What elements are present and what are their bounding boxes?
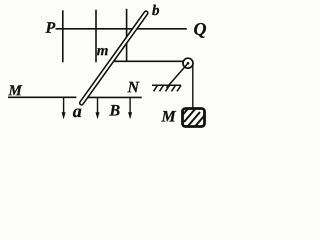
svg-text:a: a	[73, 101, 82, 121]
svg-text:m: m	[97, 43, 109, 59]
svg-text:Q: Q	[194, 19, 207, 39]
svg-text:M: M	[160, 109, 176, 126]
svg-text:M: M	[7, 83, 22, 99]
svg-text:P: P	[45, 20, 56, 37]
svg-text:N: N	[126, 79, 140, 96]
svg-text:B: B	[108, 102, 120, 119]
svg-text:b: b	[152, 3, 160, 19]
